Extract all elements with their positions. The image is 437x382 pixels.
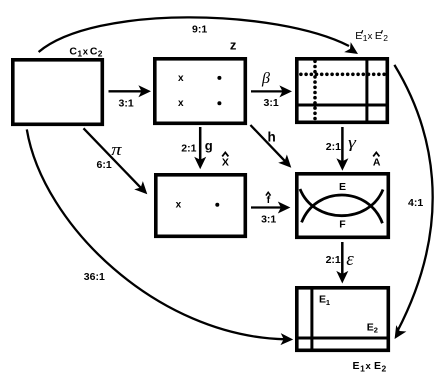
- svg-text:2: 2: [382, 363, 387, 373]
- svg-text:x: x: [368, 31, 373, 42]
- svg-text:z: z: [230, 37, 237, 52]
- svg-text:ε: ε: [346, 249, 354, 270]
- svg-text:E: E: [375, 30, 382, 42]
- arrow 36:1: [27, 129, 294, 345]
- svg-text:2: 2: [383, 33, 388, 43]
- svg-text:3:1: 3:1: [264, 97, 279, 109]
- svg-text:x: x: [178, 98, 184, 109]
- svg-text:6:1: 6:1: [97, 159, 112, 171]
- arrow beta: [251, 85, 292, 97]
- svg-text:4:1: 4:1: [408, 197, 423, 209]
- svg-text:x: x: [83, 46, 89, 57]
- svg-text:C: C: [90, 45, 98, 57]
- svg-text:1: 1: [77, 49, 82, 59]
- box E'1xE'2: [295, 57, 389, 124]
- svg-text:X: X: [222, 156, 229, 168]
- svg-text:g: g: [205, 138, 213, 153]
- svg-text:E: E: [374, 360, 381, 372]
- svg-text:x: x: [176, 200, 182, 211]
- box Ahat: [297, 174, 389, 238]
- svg-text:F: F: [339, 219, 346, 231]
- svg-text:1: 1: [326, 298, 330, 307]
- svg-text:3:1: 3:1: [119, 97, 134, 109]
- label C1xC2: [69, 45, 102, 58]
- svg-text:E: E: [367, 321, 374, 333]
- arrow h: [250, 125, 295, 172]
- arrow epsilon: [336, 242, 348, 284]
- label E'1xE'2: [355, 30, 388, 43]
- label fhat: [266, 192, 271, 206]
- svg-text:2:1: 2:1: [326, 254, 341, 266]
- label gamma: [348, 133, 357, 151]
- svg-text:3:1: 3:1: [261, 214, 276, 226]
- svg-text:9:1: 9:1: [192, 24, 207, 36]
- arrow 9:1: [39, 17, 362, 59]
- curve F: [300, 189, 383, 216]
- label Xhat: [222, 153, 229, 169]
- svg-text:h: h: [268, 130, 276, 145]
- svg-text:A: A: [373, 157, 381, 169]
- svg-text:E: E: [353, 360, 360, 372]
- box E1xE2: [295, 286, 390, 351]
- svg-text:γ: γ: [348, 133, 357, 151]
- label Ahat: [373, 153, 381, 169]
- box z: [155, 59, 246, 124]
- svg-text:2:1: 2:1: [181, 142, 196, 154]
- arrow fhat: [251, 202, 290, 214]
- svg-text:E: E: [339, 181, 346, 193]
- svg-text:x: x: [178, 73, 184, 84]
- box Xhat: [156, 175, 246, 237]
- arrow pi: [84, 128, 152, 198]
- label E1xE2: [353, 360, 387, 374]
- arrow gamma: [336, 127, 348, 171]
- svg-text:E: E: [355, 30, 362, 42]
- arrow 4:1: [390, 65, 433, 342]
- label pi: [111, 141, 122, 160]
- svg-text:2: 2: [98, 49, 103, 59]
- curve E: [302, 195, 383, 223]
- box C1xC2: [13, 60, 103, 125]
- svg-text:x: x: [366, 361, 372, 372]
- svg-text:β: β: [261, 70, 270, 87]
- svg-text:36:1: 36:1: [84, 271, 105, 283]
- svg-text:2:1: 2:1: [326, 141, 341, 153]
- svg-text:C: C: [69, 45, 77, 57]
- arrow 3:1: [109, 85, 152, 97]
- svg-text:2: 2: [374, 326, 378, 335]
- svg-text:1: 1: [360, 363, 365, 373]
- svg-text:π: π: [111, 141, 122, 160]
- arrow g: [194, 127, 206, 169]
